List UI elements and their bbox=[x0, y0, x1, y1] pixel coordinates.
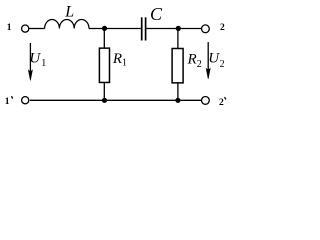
svg-text:1: 1 bbox=[5, 97, 10, 107]
resistor R2 bbox=[172, 49, 183, 83]
inductor L bbox=[45, 19, 89, 28]
arrow U1 bbox=[28, 43, 32, 80]
node junction bottom-right bbox=[175, 98, 180, 103]
svg-text:L: L bbox=[64, 4, 74, 21]
svg-text:1: 1 bbox=[41, 58, 46, 69]
svg-text:1: 1 bbox=[122, 58, 127, 69]
svg-text:R: R bbox=[112, 51, 122, 67]
svg-text:2: 2 bbox=[220, 59, 225, 70]
wire bbox=[103, 29, 105, 49]
wire bbox=[103, 82, 105, 100]
svg-text:U: U bbox=[208, 51, 220, 67]
wire bbox=[89, 28, 141, 30]
wire bbox=[147, 28, 202, 30]
wire bbox=[177, 29, 179, 49]
capacitor C bbox=[142, 17, 146, 40]
node junction top-left bbox=[102, 26, 107, 31]
terminal 2 bbox=[202, 25, 210, 33]
svg-text:2: 2 bbox=[219, 98, 224, 108]
resistor R1 bbox=[99, 48, 109, 82]
svg-text:2: 2 bbox=[197, 59, 202, 70]
wire bottom bbox=[30, 99, 202, 101]
node junction bottom-left bbox=[102, 98, 107, 103]
node junction top-right bbox=[176, 26, 181, 31]
terminal 1' bbox=[22, 97, 29, 104]
svg-text:2: 2 bbox=[220, 23, 225, 33]
arrow U2 bbox=[206, 42, 210, 79]
svg-text:R: R bbox=[187, 51, 197, 67]
svg-text:U: U bbox=[29, 51, 41, 67]
svg-text:1: 1 bbox=[7, 23, 12, 33]
svg-text:C: C bbox=[150, 4, 163, 24]
terminal 2' bbox=[202, 97, 210, 105]
terminal 1 bbox=[22, 25, 29, 32]
wire bbox=[177, 83, 179, 101]
wire bbox=[29, 28, 44, 30]
